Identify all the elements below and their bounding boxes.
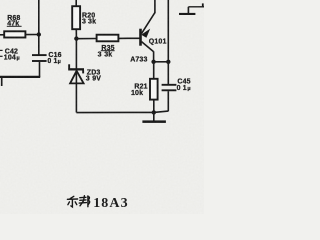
paper texture overlay <box>0 0 1 1</box>
node: junction bottom rail / R21 <box>152 110 156 114</box>
label C16 0.1u <box>47 52 61 65</box>
capacitor C16 <box>32 55 47 77</box>
wire: base row from junction to R35 <box>76 38 96 40</box>
wire: step from C16 bottom to left edge (to C42) <box>0 77 40 86</box>
label R68 47k <box>7 15 22 27</box>
emitter diagonal with arrow into base <box>142 12 156 33</box>
glyph 邦 <box>80 196 86 198</box>
wire: junction row to column C <box>154 61 169 63</box>
transistor Q101 (PNP A733) <box>139 0 155 62</box>
capacitor C42 label (cut off at left edge) <box>0 48 20 61</box>
resistor R21 <box>150 62 158 113</box>
wire: base row from R35 to Q101 base <box>118 37 139 39</box>
wire stub cut at top right edge <box>202 3 204 7</box>
wire: column A vertical (top edge to C16 top plate) <box>38 0 40 55</box>
label R21 10k <box>131 84 148 98</box>
terminal symbol top right <box>179 3 204 15</box>
resistor R35 <box>97 35 119 42</box>
label R35 3 3k <box>98 45 115 59</box>
label R20 3 3k <box>82 13 96 26</box>
node: junction R68 / column A <box>37 32 41 36</box>
label ZD3 3 9V <box>86 69 101 82</box>
zener diode ZD3 <box>68 39 84 113</box>
glyph 乐 <box>70 196 74 198</box>
node: junction on column C <box>166 60 170 64</box>
resistor R20 <box>72 0 80 39</box>
ground <box>142 112 166 123</box>
wire: column C vertical (top edge down to C45) <box>167 0 169 84</box>
node: junction R20 / base wire / zener <box>74 36 78 40</box>
caption: 乐邦 (drawn glyphs) <box>67 196 89 207</box>
node: collector junction <box>151 60 155 64</box>
background scan paper <box>0 0 204 214</box>
label C45 0 1u <box>177 79 191 92</box>
resistor R68 <box>0 31 39 37</box>
collector vertical down to junction <box>153 51 155 62</box>
collector diagonal <box>142 42 154 52</box>
base bar <box>139 29 142 46</box>
wire: bottom rail from zener to column C <box>76 111 168 113</box>
emitter vertical to top edge <box>154 0 156 13</box>
capacitor C45 <box>162 85 177 112</box>
